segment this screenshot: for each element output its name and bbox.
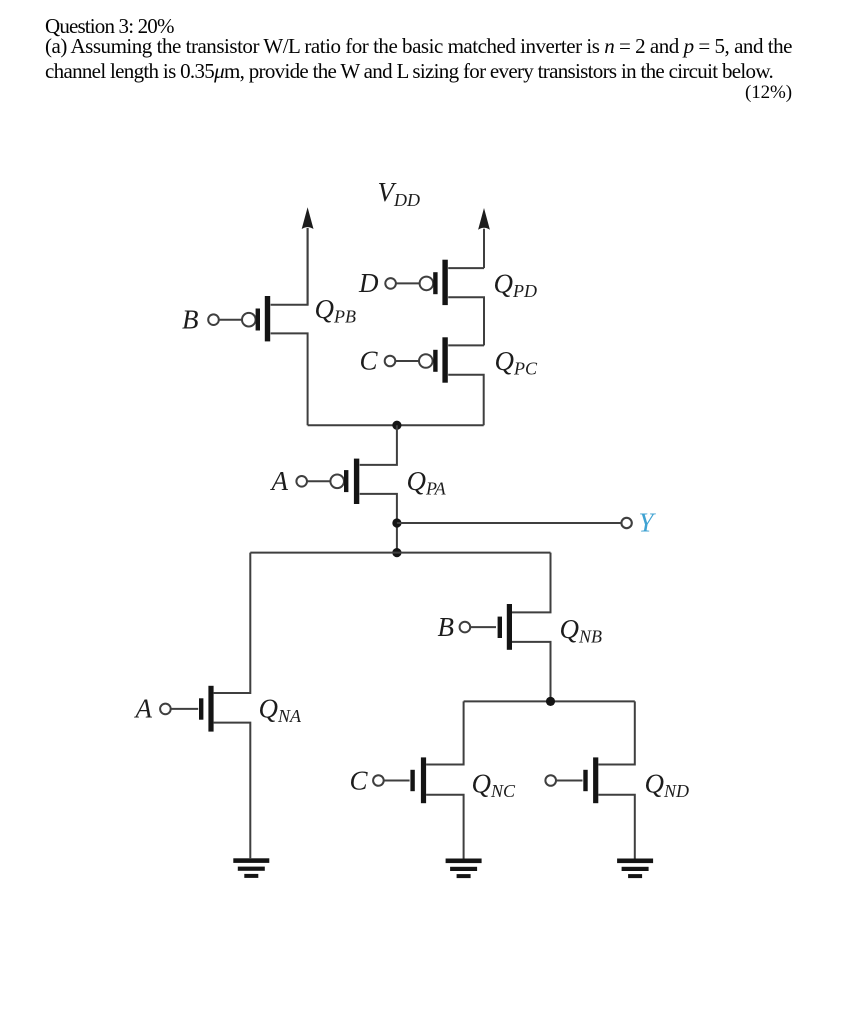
power VDD arrow left <box>302 207 314 304</box>
input terminal C of QNC <box>373 775 410 786</box>
label QPA <box>407 466 447 499</box>
svg-text:D: D <box>358 268 379 298</box>
label D (QPD gate input) <box>358 268 379 298</box>
svg-text:VDD: VDD <box>378 177 421 210</box>
wire QPA source down to output node <box>360 494 397 553</box>
input terminal A of QNA <box>160 704 198 715</box>
question text line 3 <box>45 61 773 82</box>
marks (12%) <box>45 83 792 102</box>
input terminal D of QPD <box>385 278 420 289</box>
svg-text:A: A <box>270 466 289 496</box>
svg-text:QPA: QPA <box>407 466 447 499</box>
svg-text:QPB: QPB <box>315 294 357 327</box>
input terminal B of QPB <box>208 314 242 325</box>
transistor QNB (NMOS) <box>498 604 512 650</box>
wire QPC drain <box>448 344 484 346</box>
svg-text:QNA: QNA <box>259 694 303 727</box>
wire QND drain up to NMOS rail <box>598 701 635 764</box>
transistor QPD (PMOS) <box>420 260 448 305</box>
svg-text:B: B <box>438 612 455 642</box>
wire PMOS bottom rail <box>308 424 484 426</box>
ground symbol (QNC source) <box>446 859 482 879</box>
label QNC <box>472 768 517 801</box>
svg-text:QNB: QNB <box>560 614 603 647</box>
svg-text:QPD: QPD <box>494 268 538 301</box>
svg-text:C: C <box>359 346 378 376</box>
transistor QPA (PMOS) <box>330 459 359 504</box>
wire QPB source down <box>271 333 308 425</box>
input terminal C of QPC <box>385 356 420 367</box>
wire QPD source down to QPC <box>448 297 484 345</box>
wire QNB drain up to net N <box>512 553 551 613</box>
svg-text:B: B <box>182 304 199 334</box>
label A (QPA gate input) <box>270 466 289 496</box>
label QPC <box>495 346 538 379</box>
input terminal A of QPA <box>296 476 331 487</box>
wire output to Y <box>397 522 621 524</box>
svg-text:QND: QND <box>645 768 690 801</box>
node dot on rail <box>392 421 401 430</box>
label C (QPC gate input) <box>359 346 378 376</box>
svg-text:A: A <box>134 694 153 724</box>
wire QNC drain up to NMOS rail <box>426 701 464 764</box>
label A (QNA gate input) <box>134 694 153 724</box>
label Y (output) <box>639 508 657 538</box>
label B (QPB gate input) <box>182 304 199 334</box>
wire NMOS rail <box>464 700 635 702</box>
label QPD <box>494 268 538 301</box>
wire net N horizontal <box>250 552 550 554</box>
node dot net N <box>392 548 401 557</box>
svg-text:QNC: QNC <box>472 768 517 801</box>
label QPB <box>315 294 357 327</box>
input terminal B of QNB <box>460 622 496 633</box>
wire QNB source down to NMOS rail <box>512 642 551 702</box>
input terminal of QND (unlabelled) <box>545 775 582 786</box>
transistor QNA (NMOS) <box>199 686 214 732</box>
svg-text:Y: Y <box>639 508 657 538</box>
label QNA <box>259 694 303 727</box>
transistor QNC (NMOS) <box>410 757 426 803</box>
label B (QNB gate input) <box>438 612 455 642</box>
question text line 2 <box>45 36 792 57</box>
node dot on NMOS rail <box>546 697 555 706</box>
label QND <box>645 768 690 801</box>
transistor QPC (PMOS) <box>419 337 448 382</box>
wire QPB drain to VDD <box>271 228 308 305</box>
power VDD arrow right <box>478 208 490 268</box>
power VDD label <box>378 177 421 210</box>
wire QPC source down to rail <box>448 375 484 425</box>
transistor QPB (PMOS) <box>242 296 270 341</box>
label C (QNC gate input) <box>349 765 368 795</box>
wire QND source down to ground <box>598 795 635 859</box>
svg-text:C: C <box>349 765 368 795</box>
wire QNC source down to ground <box>426 795 464 859</box>
output terminal Y <box>621 518 631 528</box>
ground symbol (QND source) <box>617 859 653 879</box>
wire QNA drain up to net N <box>214 553 251 693</box>
ground symbol (QNA source) <box>233 858 269 878</box>
question text line 1 <box>45 16 174 37</box>
svg-text:QPC: QPC <box>495 346 538 379</box>
transistor QND (NMOS) <box>583 757 598 803</box>
label QNB <box>560 614 603 647</box>
wire QPD drain to VDD <box>448 267 484 269</box>
wire QNA source down to ground <box>214 723 251 859</box>
node dot output <box>392 518 401 527</box>
wire QPA drain up to rail node <box>360 425 397 465</box>
